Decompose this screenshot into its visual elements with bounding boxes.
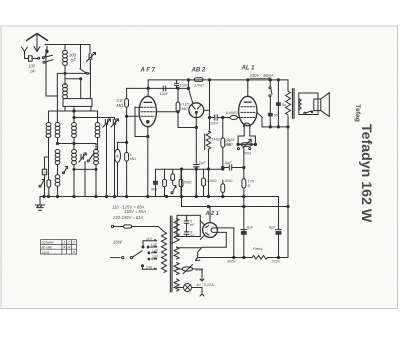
- B+ distribution bus: [182, 205, 290, 207]
- svg-text:44Ω: 44Ω: [196, 267, 204, 272]
- svg-text:0,25: 0,25: [227, 138, 235, 142]
- rheostat 44 ohm: [177, 265, 202, 282]
- wire tuner bottom: [89, 60, 91, 99]
- wire lower bandfilter link: [73, 168, 97, 170]
- tone switch branch: [269, 79, 272, 113]
- resistor 0.5M diode load: [221, 116, 225, 167]
- svg-text:18W: 18W: [113, 239, 123, 244]
- svg-text:50: 50: [274, 114, 278, 118]
- power transformer core: [170, 216, 172, 292]
- svg-text:50kΩ: 50kΩ: [184, 181, 192, 185]
- power transformer primary: [162, 232, 167, 273]
- output transformer primary: [286, 80, 291, 258]
- capacitor tone 2: [276, 102, 281, 127]
- wire ground bus drop: [278, 197, 280, 229]
- node antenna junction: [45, 46, 48, 57]
- wire AVC riser: [181, 169, 183, 207]
- wire antenna to capacitor: [25, 58, 29, 60]
- secondary winding 4: [174, 279, 179, 291]
- wire AB2 cathode down: [195, 118, 197, 165]
- tube AF7: [139, 96, 156, 126]
- svg-text:40kΩ: 40kΩ: [225, 179, 233, 183]
- wire AF7 cathode bracket: [135, 107, 149, 137]
- variable capacitor C-tune2: [111, 118, 119, 197]
- resistor 0.9M: [125, 99, 129, 197]
- label mains ratings: [112, 204, 146, 220]
- switch table: [41, 240, 77, 255]
- svg-text:A Z 1: A Z 1: [205, 211, 219, 217]
- svg-text:1,5kΩ: 1,5kΩ: [194, 84, 204, 88]
- resistor 1M: [125, 152, 129, 161]
- capacitor C-left 100: [42, 169, 46, 196]
- oscillator box: [63, 99, 92, 107]
- svg-text:Tefadyn 162 W: Tefadyn 162 W: [358, 124, 374, 223]
- svg-text:1μF: 1μF: [199, 161, 206, 165]
- svg-text:5n: 5n: [282, 103, 286, 107]
- switch S5 left: [39, 180, 45, 188]
- capacitor 10nF rail: [174, 80, 178, 89]
- wire grid cap row: [127, 80, 189, 97]
- capacitor 8uF left: [241, 230, 247, 235]
- svg-text:360v: 360v: [227, 259, 237, 264]
- mains selector contacts: [147, 246, 150, 260]
- AL1 socket box: [237, 125, 257, 145]
- svg-text:M.-Wel.: M.-Wel.: [42, 245, 53, 249]
- speaker coil: [299, 99, 301, 110]
- wire AL1 cathode down: [243, 146, 245, 178]
- IF coil D: [95, 123, 100, 150]
- AB2 electrodes: [192, 105, 201, 118]
- potentiometer 0.25M: [238, 139, 253, 149]
- svg-text:MΩ: MΩ: [117, 103, 124, 108]
- capacitor 100pF: [29, 56, 38, 61]
- heater return rail: [198, 256, 288, 258]
- pilot lamp: [177, 284, 202, 295]
- svg-text:pF: pF: [70, 58, 76, 63]
- wire left vertical tuner: [46, 50, 58, 97]
- ground symbol: [35, 197, 44, 211]
- secondary winding 3: [174, 263, 179, 275]
- svg-text:8μF: 8μF: [247, 226, 254, 230]
- capacitor bank C-b: [179, 169, 183, 196]
- wire screen dropper: [126, 88, 128, 98]
- wire detector row: [156, 168, 224, 197]
- wire B+ rail 230V: [148, 79, 288, 81]
- chassis mark filament: [195, 258, 199, 261]
- coil G lower: [74, 144, 98, 197]
- resistor bank R-b: [171, 169, 175, 184]
- tube AL1: [239, 96, 257, 125]
- svg-text:10nF: 10nF: [210, 122, 219, 126]
- svg-text:4V ; 0,22A: 4V ; 0,22A: [196, 283, 214, 287]
- wire AZ1 plate leads: [200, 221, 205, 240]
- wire AF7 to AB2 coupling: [157, 111, 180, 113]
- wire bandfilter top: [49, 110, 98, 123]
- resistor bank R-c: [202, 169, 206, 196]
- wire AZ1 filament loop: [198, 228, 235, 259]
- svg-text:240: 240: [145, 265, 152, 269]
- svg-text:220: 220: [151, 255, 158, 259]
- speaker horn: [321, 93, 330, 117]
- wire AB2 output row: [204, 110, 214, 118]
- IF coil B: [55, 123, 60, 144]
- svg-text:140: 140: [152, 249, 158, 253]
- svg-text:MΩ: MΩ: [130, 157, 136, 161]
- resistor 0.15M: [176, 87, 180, 127]
- choke 36: [115, 141, 128, 196]
- svg-text:AB 2: AB 2: [191, 68, 206, 74]
- wire tone row: [257, 112, 289, 128]
- svg-text:MΩ: MΩ: [227, 143, 233, 147]
- wire filament feed: [177, 247, 201, 249]
- chassis arrow top: [200, 279, 204, 281]
- feedback branch: [277, 79, 279, 103]
- AZ1 electrodes: [206, 225, 214, 235]
- speaker switch: [304, 111, 313, 114]
- svg-text:8μF: 8μF: [269, 226, 276, 230]
- capacitor 1uF: [194, 165, 200, 197]
- wire top rail of tuner box: [45, 44, 90, 46]
- capacitor tone 1: [268, 113, 273, 127]
- mains lead fuse: [111, 225, 164, 232]
- resistor 0.6M: [217, 115, 239, 119]
- switch S6 pickup: [171, 185, 176, 193]
- svg-text:0,6MΩ: 0,6MΩ: [226, 111, 237, 115]
- capacitor buffer top: [184, 215, 189, 227]
- wire left branch: [45, 157, 49, 169]
- switch S3 band: [79, 148, 86, 162]
- speaker field frame: [299, 93, 318, 115]
- svg-text:Tefag: Tefag: [354, 104, 361, 122]
- svg-text:AL 1: AL 1: [241, 66, 256, 72]
- wire screen vertical: [208, 79, 210, 130]
- svg-text:Ω: Ω: [248, 184, 251, 188]
- switch S2 osc: [80, 69, 91, 75]
- resistor 15kOhm rail: [194, 78, 203, 82]
- bus junction dots: [43, 195, 245, 197]
- speaker driver: [314, 99, 321, 111]
- svg-text:10nF: 10nF: [160, 92, 169, 96]
- svg-text:Feins.: Feins.: [253, 247, 263, 251]
- coil E lower: [55, 150, 60, 197]
- resistor bank R-a: [153, 169, 158, 196]
- mains switch: [111, 251, 143, 259]
- svg-text:3: 3: [73, 241, 75, 245]
- svg-text:110: 110: [146, 237, 152, 241]
- wire osc feedback: [57, 72, 86, 96]
- mains selector taps: [147, 240, 157, 270]
- svg-text:5μF: 5μF: [225, 161, 232, 165]
- svg-text:MΩ: MΩ: [182, 107, 188, 111]
- svg-text:50Ω: 50Ω: [244, 152, 251, 156]
- IF coil A: [46, 123, 51, 197]
- svg-text:36: 36: [115, 155, 119, 159]
- svg-text:0,3MΩ: 0,3MΩ: [207, 179, 217, 183]
- output transformer core: [292, 89, 294, 119]
- svg-text:1MΩ: 1MΩ: [212, 138, 220, 142]
- capacitor 8uF right: [276, 230, 282, 258]
- svg-text:Lang: Lang: [42, 250, 50, 254]
- svg-text:125: 125: [151, 243, 157, 247]
- variable capacitor C-tune1: [103, 119, 111, 197]
- svg-text:0,15: 0,15: [182, 103, 190, 107]
- coil F lower: [72, 150, 77, 197]
- svg-text:220-240V = 61A: 220-240V = 61A: [112, 215, 144, 220]
- AL1 electrodes: [241, 102, 255, 127]
- AF7 electrodes: [141, 102, 155, 123]
- tube AB2: [189, 103, 204, 118]
- coil L1: [63, 45, 68, 86]
- svg-text:10nF: 10nF: [180, 84, 189, 88]
- svg-text:210v: 210v: [271, 259, 282, 264]
- capacitor 10nF AB2: [215, 115, 217, 120]
- svg-text:Schalter: Schalter: [42, 241, 55, 245]
- secondary winding 2: [174, 247, 179, 259]
- label 230V 36mA: [249, 73, 274, 78]
- wire AB2 diode return: [178, 126, 197, 128]
- secondary HV winding: [172, 219, 180, 244]
- wire AF7 anode down: [147, 127, 149, 197]
- aux antenna Y: [22, 47, 28, 59]
- svg-text:170: 170: [248, 180, 255, 184]
- wire tuning cap row: [73, 116, 115, 118]
- coil L2: [63, 84, 68, 99]
- resistor R-left: [47, 180, 51, 188]
- switch S1 antenna: [38, 55, 53, 63]
- wire grid tap: [65, 78, 82, 99]
- svg-text:230V ; 36mA: 230V ; 36mA: [249, 73, 274, 78]
- antenna symbol: [27, 34, 48, 52]
- svg-text:150V = 55A: 150V = 55A: [124, 209, 146, 214]
- wire osc verticals: [57, 96, 91, 123]
- arrow 230V: [250, 78, 272, 79]
- potentiometer 0.5M volume: [205, 131, 211, 197]
- tube AZ1: [203, 223, 218, 238]
- svg-text:100: 100: [42, 171, 47, 175]
- fuse Feins: [252, 256, 268, 260]
- IF coil C: [72, 123, 77, 150]
- wire coupling row: [56, 142, 75, 144]
- resistor 170 ohm: [242, 179, 246, 258]
- chassis arrow bottom: [200, 294, 204, 296]
- trimmer capacitor: [81, 45, 96, 71]
- switch S7 wave: [63, 166, 68, 173]
- wire AZ1 output stem: [209, 207, 211, 223]
- capacitor bank C-a: [163, 169, 167, 196]
- svg-text:pF: pF: [30, 69, 36, 74]
- resistor bank R-d: [221, 180, 225, 197]
- svg-text:A F 7: A F 7: [140, 68, 156, 74]
- selector lever wires: [142, 241, 148, 270]
- wire AF7 grid left: [126, 115, 140, 117]
- switch S4 band: [85, 153, 94, 197]
- main ground bus: [40, 196, 279, 198]
- rectifier cap box: [177, 215, 200, 236]
- capacitor 5uF: [222, 165, 244, 170]
- capacitor buffer bottom: [184, 229, 189, 237]
- wire AL1 anode stem: [247, 79, 249, 97]
- svg-text:5kΩ: 5kΩ: [151, 188, 157, 192]
- node grid cap AB2: [187, 79, 193, 104]
- capacitor 10nF grid: [163, 86, 165, 91]
